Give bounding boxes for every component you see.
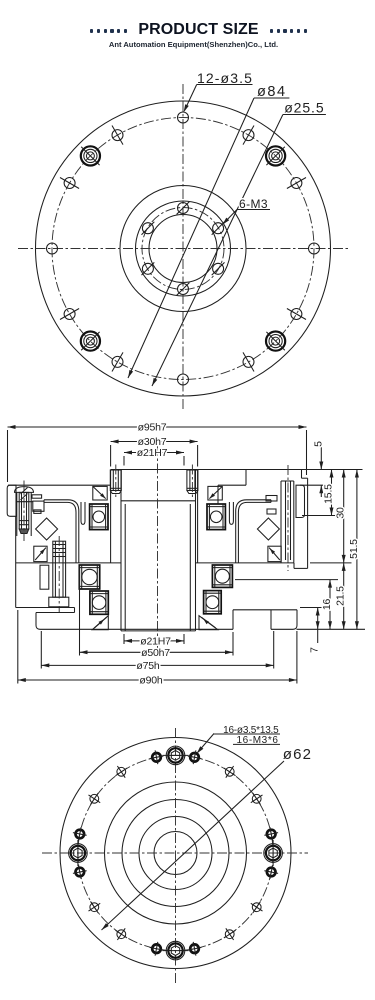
bearing lower-left inner <box>90 591 108 614</box>
counterbored hole at 135 deg <box>81 146 100 165</box>
top view horizontal centerline <box>18 248 348 250</box>
top view M3 bolt circle Ø25.5 (dash-dot) <box>142 208 224 290</box>
set screw right on hub <box>187 465 198 498</box>
svg-text:6-M3: 6-M3 <box>239 197 268 211</box>
bolt hole Ø3.5 at 120 deg <box>112 126 123 145</box>
bolt hole Ø3.5 at 0 deg <box>309 243 320 254</box>
right flange tab <box>296 485 305 517</box>
bottom view outer circle <box>60 738 291 969</box>
svg-text:ø21H7: ø21H7 <box>140 636 171 648</box>
svg-text:16: 16 <box>321 599 333 611</box>
dimension Ø50h7 <box>80 566 234 659</box>
bottom view circle 4 <box>105 782 247 924</box>
clearance hole Ø3.5 at 123.75 deg <box>116 766 128 778</box>
mid split line right <box>196 562 295 564</box>
M3 tapped hole at 168.75 deg <box>73 827 87 841</box>
bolt hole Ø3.5 at 240 deg <box>112 352 123 371</box>
bottom view bolt circle Ø62 (dash-dot) <box>78 755 273 950</box>
label Ø62 with leader <box>102 746 313 930</box>
M3 tapped hole at 258.75 deg <box>150 942 164 956</box>
label Ø84 with leader <box>128 84 289 378</box>
right recessed face <box>218 470 246 505</box>
M3 tapped hole at 150 deg <box>142 222 155 235</box>
roller diamond left <box>36 518 58 540</box>
counterbored hole at 315 deg <box>266 332 285 351</box>
wedge hatch bottom-right <box>199 616 218 630</box>
svg-text:ø75h: ø75h <box>136 660 159 672</box>
dimension Ø21H7 top <box>124 447 184 465</box>
dimension 16 <box>321 580 333 630</box>
bolt hole Ø3.5 at 90 deg <box>178 112 189 123</box>
bearing lower-right outer <box>212 565 232 587</box>
wedge hatch upper-left <box>93 486 107 500</box>
dimension Ø90h <box>18 610 297 687</box>
bolt hole Ø3.5 at 60 deg <box>243 126 254 145</box>
label Ø25.5 with leader <box>152 100 326 386</box>
wedge hatch bottom-left <box>92 616 108 630</box>
top view bolt circle Ø84 (dash-dot) <box>52 118 314 380</box>
clearance hole Ø3.5 at 326.25 deg <box>251 901 263 913</box>
left top face <box>8 484 111 486</box>
M3 tapped hole at 101.25 deg <box>150 750 164 764</box>
dimension 30 <box>335 470 347 563</box>
reference extension lines right side <box>235 470 365 630</box>
bottom view circle 3 <box>122 800 229 907</box>
M3 tapped hole at 270 deg <box>177 283 190 296</box>
clearance hole Ø3.5 at 33.75 deg <box>251 793 263 805</box>
left foot <box>16 608 75 630</box>
svg-text:ø90h: ø90h <box>139 675 162 687</box>
svg-text:30: 30 <box>335 507 347 519</box>
dimension Ø30h7 top <box>111 436 198 466</box>
cap screw left (pointing down) <box>15 481 34 542</box>
hex socket hole at 0 deg <box>264 840 283 866</box>
right top face and rim <box>198 470 308 569</box>
svg-text:21.5: 21.5 <box>335 586 347 606</box>
bolt hole Ø3.5 at 180 deg <box>47 243 58 254</box>
mid split line left <box>16 562 121 564</box>
M3 tapped hole at 11.25 deg <box>264 827 278 841</box>
clamp block left <box>40 565 49 589</box>
M3 tapped hole at 90 deg <box>177 202 190 215</box>
bolt hole Ø3.5 at 270 deg <box>178 374 189 385</box>
flexspline cup left <box>44 500 85 563</box>
flexspline cup right <box>229 500 271 563</box>
section vertical centerline <box>157 446 159 649</box>
bolt hole Ø3.5 at 150 deg <box>60 178 79 189</box>
top view boss circle <box>136 201 231 296</box>
svg-text:5: 5 <box>312 441 324 447</box>
svg-text:ø62: ø62 <box>283 746 312 763</box>
bearing lower-left outer <box>79 565 99 589</box>
counterbored hole at 45 deg <box>266 146 285 165</box>
label 6-M3 with leader <box>222 197 270 225</box>
svg-text:ø21H7: ø21H7 <box>137 447 168 459</box>
bearing lower-right inner <box>204 591 222 614</box>
section tube walls <box>121 470 196 631</box>
clearance hole Ø3.5 at 236.25 deg <box>116 928 128 940</box>
bolt hole Ø3.5 at 330 deg <box>287 309 306 320</box>
label 12-Ø3.5 with leader <box>184 70 253 112</box>
svg-text:ø25.5: ø25.5 <box>284 100 324 116</box>
clearance hole Ø3.5 at 146.25 deg <box>89 793 101 805</box>
svg-text:15.5: 15.5 <box>323 484 335 504</box>
wedge hatch mid-left <box>34 546 47 561</box>
label 16-Ø3.5*13.5 / 16-M3*6 with leader <box>197 725 280 754</box>
M3 tapped hole at 348.75 deg <box>264 865 278 879</box>
left step face <box>16 501 33 503</box>
header <box>0 23 375 49</box>
svg-text:ø50h7: ø50h7 <box>141 647 170 659</box>
hex socket hole at 270 deg <box>163 941 189 960</box>
bolt hole Ø3.5 at 30 deg <box>287 178 306 189</box>
left housing wall <box>15 516 17 607</box>
flange bolt hole right (dash-dot axis) <box>281 465 294 571</box>
clearance hole Ø3.5 at 213.75 deg <box>89 901 101 913</box>
left flange tab <box>7 485 16 516</box>
M3 tapped hole at 210 deg <box>142 262 155 275</box>
bearing upper-left <box>90 504 108 530</box>
clamp plates left <box>32 495 44 514</box>
roller diamond right <box>257 518 279 540</box>
M3 tapped hole at 191.25 deg <box>73 865 87 879</box>
bottom face <box>75 628 234 630</box>
top view outer circle Ø95 <box>36 101 331 396</box>
clearance hole Ø3.5 at 303.75 deg <box>224 928 236 940</box>
section hub right wall <box>197 470 199 563</box>
M3 tapped hole at 281.25 deg <box>188 942 202 956</box>
svg-text:12-ø3.5: 12-ø3.5 <box>197 70 253 86</box>
dimension Ø21H7 bottom <box>124 634 184 648</box>
cap screw lower-left (pointing up) <box>49 536 69 612</box>
dimension 7 <box>309 608 321 653</box>
M3 tapped hole at 78.75 deg <box>188 750 202 764</box>
dimension 51.5 <box>348 470 360 630</box>
bottom view vertical centerline <box>175 728 177 985</box>
section hub top face <box>111 469 198 471</box>
right foot <box>233 610 297 630</box>
M3 tapped hole at 330 deg <box>212 262 225 275</box>
dimension 21.5 <box>335 563 347 629</box>
svg-text:ø95h7: ø95h7 <box>138 422 167 434</box>
hex socket hole at 90 deg <box>163 746 189 765</box>
top view bore circle <box>149 215 217 283</box>
bottom view circle 2 <box>139 817 212 890</box>
dimension Ø75h <box>41 631 273 672</box>
wedge hatch upper-right <box>208 486 222 500</box>
counterbored hole at 225 deg <box>81 332 100 351</box>
top view vertical centerline <box>182 84 184 410</box>
M3 tapped hole at 30 deg <box>212 222 225 235</box>
wedge hatch mid-right <box>268 546 281 561</box>
bolt hole Ø3.5 at 300 deg <box>243 352 254 371</box>
dimension 5 <box>312 441 324 497</box>
clamp plates right <box>266 496 277 515</box>
dimension Ø95h7 <box>8 422 307 482</box>
set screw left on hub <box>110 465 121 498</box>
bottom view horizontal centerline <box>42 852 308 854</box>
top view hub circle <box>120 186 246 312</box>
section hub left wall <box>110 470 112 563</box>
bolt hole Ø3.5 at 210 deg <box>60 309 79 320</box>
svg-text:7: 7 <box>309 647 321 653</box>
dimension 15.5 <box>323 470 335 516</box>
bearing upper-right <box>207 504 225 530</box>
clearance hole Ø3.5 at 56.25 deg <box>224 766 236 778</box>
hex socket hole at 180 deg <box>69 840 88 866</box>
svg-text:51.5: 51.5 <box>348 539 360 559</box>
bottom view circle 1 <box>154 832 197 875</box>
